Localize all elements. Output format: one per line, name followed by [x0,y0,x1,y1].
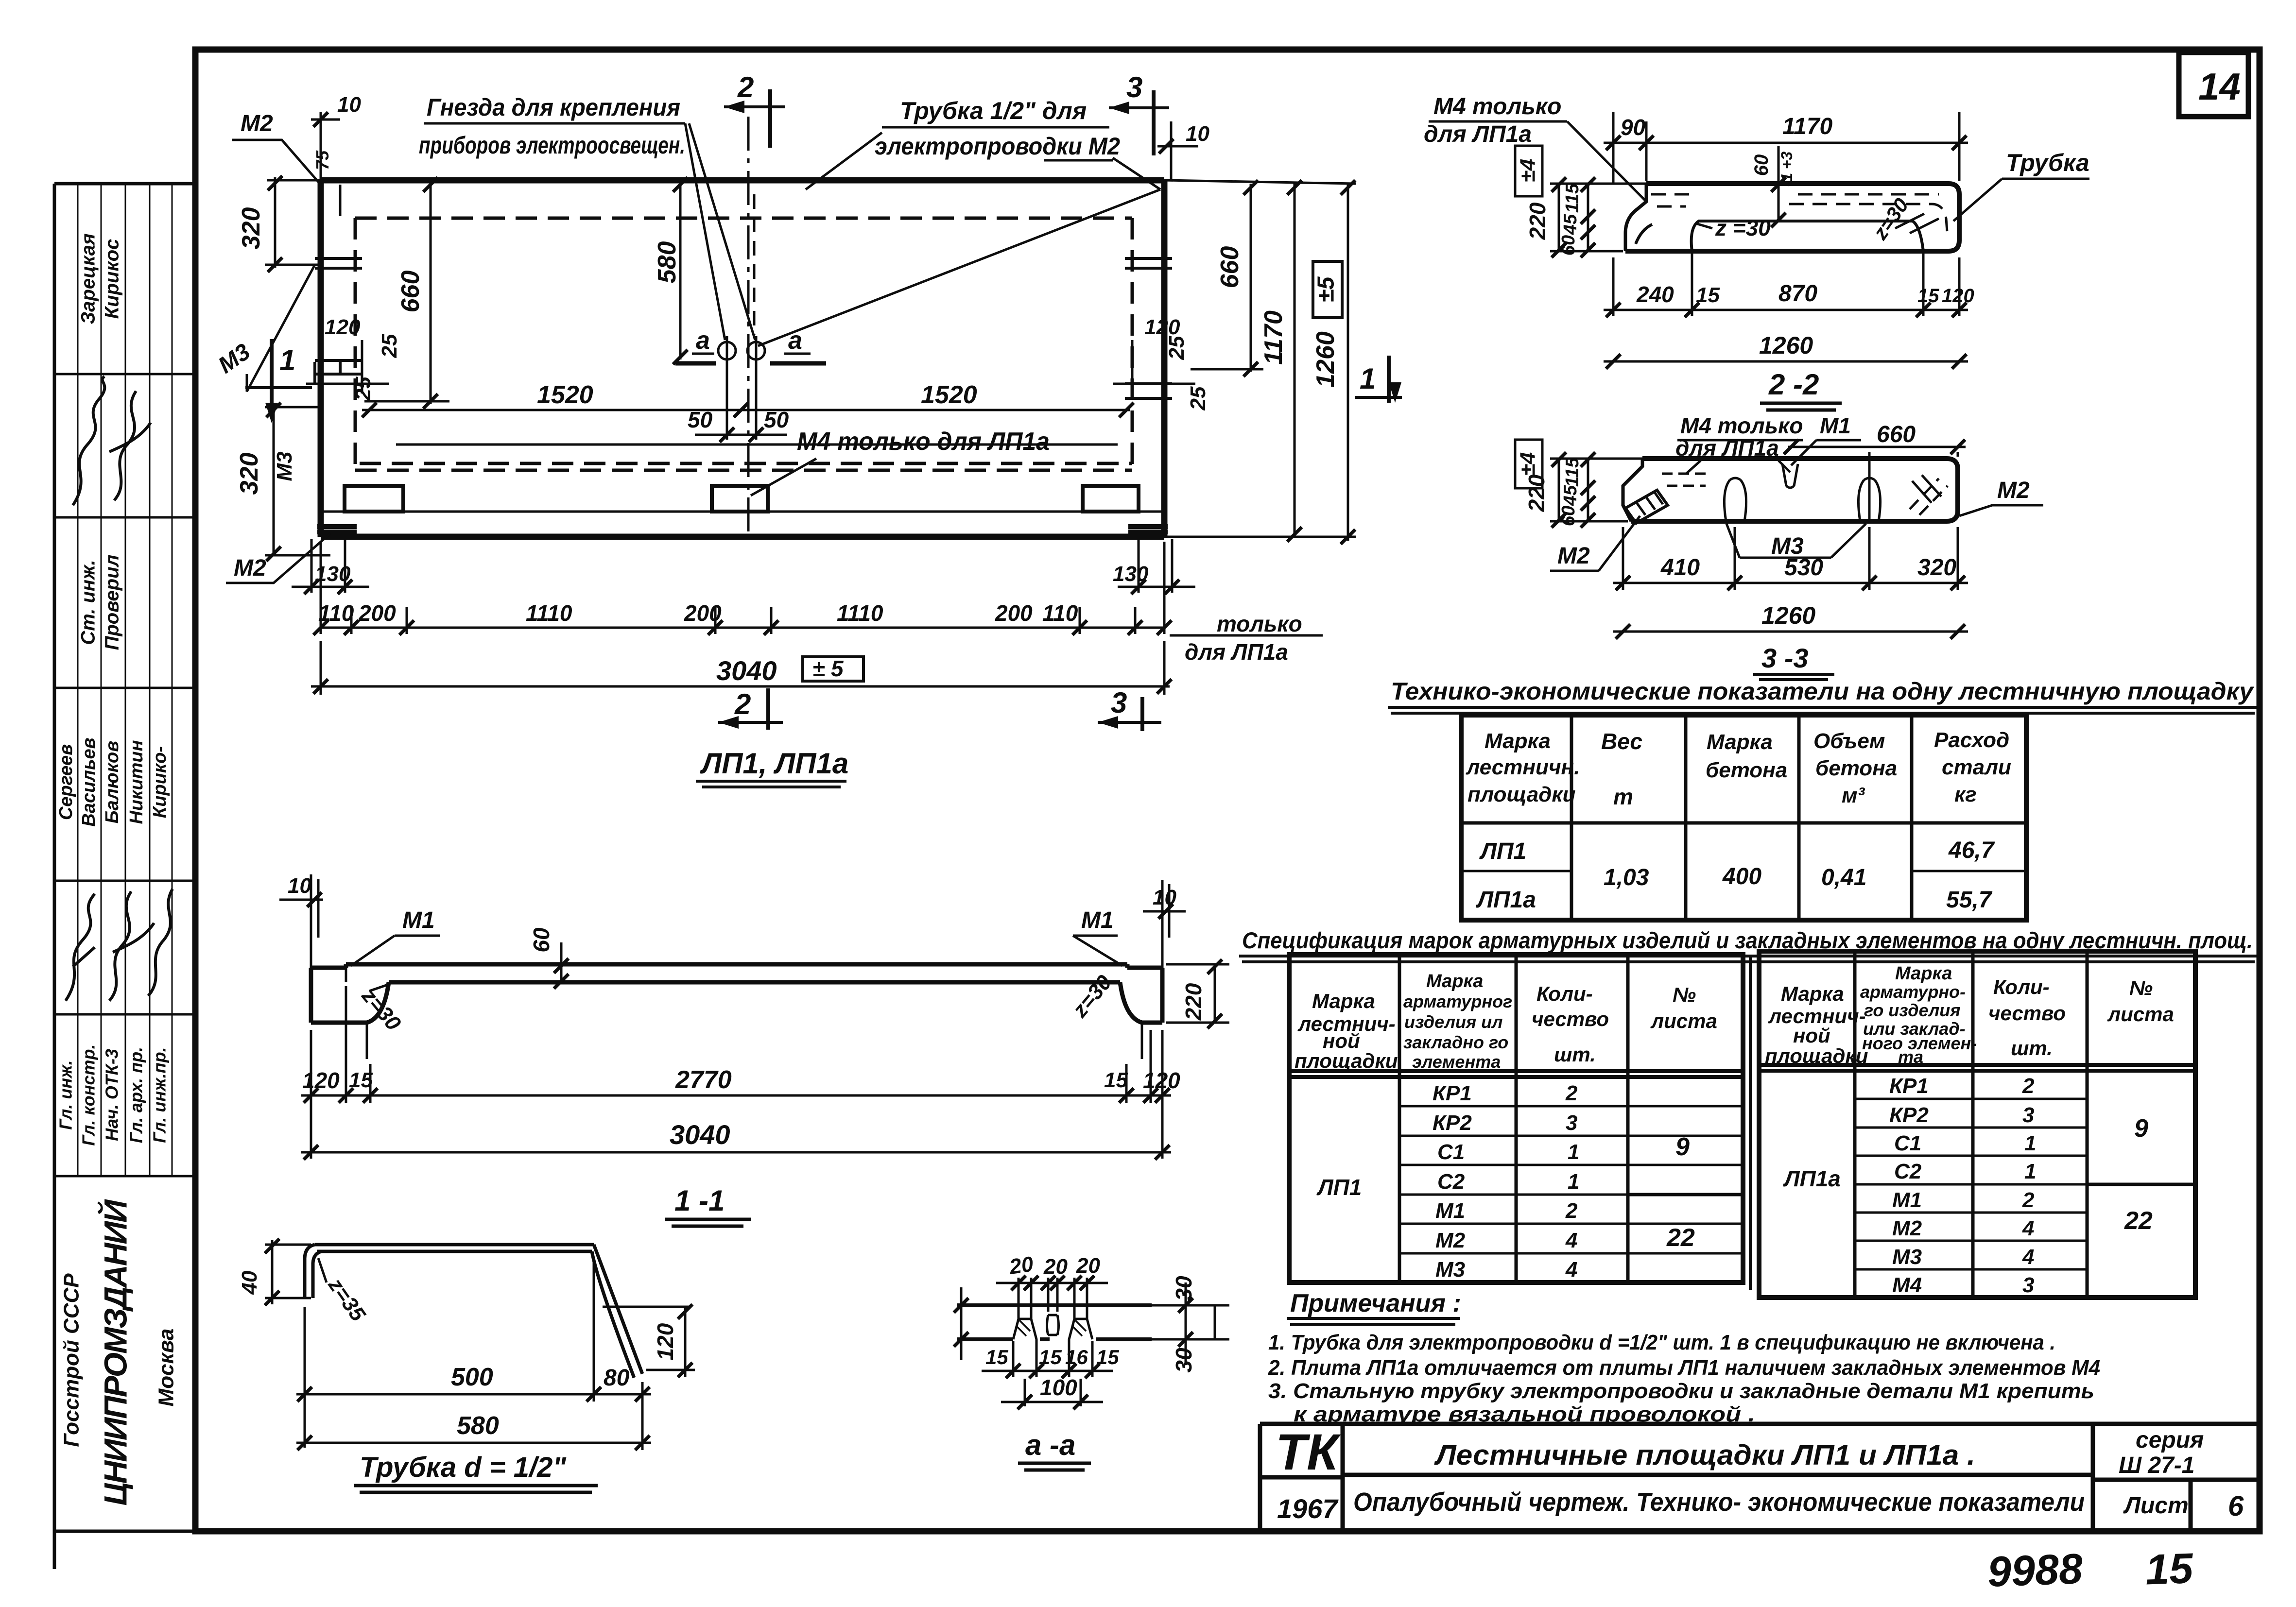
svg-text:120: 120 [325,315,361,339]
svg-text:-1: -1 [1778,173,1795,187]
table 2 right half grid [1750,951,2195,1298]
1-1 dim 10 right [1143,880,1186,968]
svg-text:2: 2 [1565,1199,1578,1223]
1-1 label M1 right [1073,907,1122,966]
svg-text:бетона: бетона [1815,756,1897,780]
svg-text:60: 60 [529,927,554,953]
svg-text:Балюков: Балюков [102,741,122,823]
svg-text:Марка: Марка [1426,971,1483,992]
svg-text:1110: 1110 [526,600,572,626]
svg-text:Лестничные площадки ЛП1 и ЛП: Лестничные площадки ЛП1 и ЛП1а . [1434,1439,1975,1471]
svg-text:шт.: шт. [1554,1043,1596,1066]
svg-text:1: 1 [1568,1140,1579,1164]
svg-text:2: 2 [734,688,751,720]
strip box3 Ст.инж / Проверил [78,517,172,688]
svg-text:№: № [2129,976,2153,999]
svg-text:500: 500 [451,1363,493,1391]
3-3 left dims ±4 220 115 45 60 [1515,440,1645,528]
plan M3 edge embeds left [315,258,362,384]
table 2 right data [1783,1074,2153,1297]
svg-text:М4 только: М4 только [1433,94,1561,120]
svg-text:3. Стальную трубку электр: 3. Стальную трубку электропроводки и зак… [1268,1379,2094,1403]
svg-text:Коли-: Коли- [1993,975,2050,998]
svg-text:120: 120 [1942,285,1974,307]
a-a left edge dim [954,1287,968,1360]
svg-text:15: 15 [985,1346,1008,1368]
svg-text:2: 2 [1565,1081,1578,1105]
svg-text:чество: чество [1532,1008,1609,1030]
1-1 label M1 left [351,907,440,966]
svg-text:9988: 9988 [1986,1544,2083,1596]
3-3 bottom dims 410 530 320 [1613,527,1968,590]
table 1 grid [1461,715,2026,920]
dim 1260 right with ±5 [321,146,1356,544]
svg-text:ЛП1: ЛП1 [1479,838,1526,864]
dim 130 left bottom [292,539,369,594]
svg-text:М2: М2 [1435,1229,1466,1252]
section 2-2 profile [1625,184,1959,316]
trubka dim 580 [296,1412,651,1450]
1-1 dim 60 [529,927,569,989]
page number box 14 [2179,52,2248,117]
svg-text:z=30: z=30 [357,984,406,1036]
svg-text:Гл. констр.: Гл. констр. [79,1044,99,1145]
svg-text:1: 1 [1568,1170,1579,1194]
1-1 dim 220 right [1166,959,1229,1028]
view label 3-3 [1753,643,1834,680]
svg-text:3: 3 [1126,71,1142,103]
svg-text:200: 200 [995,600,1033,626]
2-2 label M4 только для ЛП1а [1424,94,1646,202]
svg-text:10: 10 [337,93,361,117]
dim 50 50 at sockets [688,369,789,442]
svg-text:1170: 1170 [1782,114,1833,139]
svg-text:чество: чество [1988,1002,2066,1025]
svg-text:15: 15 [1039,1346,1062,1368]
svg-text:КР1: КР1 [1433,1081,1472,1105]
svg-text:Сергеев: Сергеев [56,744,76,820]
notes Примечания [1268,1289,2100,1426]
svg-text:КР2: КР2 [1433,1111,1472,1135]
svg-text:№: № [1673,983,1696,1006]
svg-text:арматурно-: арматурно- [1860,982,1966,1002]
table 1 data [1476,838,1995,913]
table 2 left half grid [1289,955,1743,1282]
svg-text:М1: М1 [1892,1188,1922,1212]
dim 3040 ±5 [311,641,1172,695]
svg-text:25: 25 [1165,336,1189,360]
section marker 3 top [1109,71,1169,155]
svg-text:660: 660 [1877,422,1916,447]
trubka z=35 label [318,1258,370,1326]
svg-text:3 -3: 3 -3 [1761,643,1809,673]
dim 320 bottom left [235,403,330,561]
svg-text:200: 200 [358,600,396,626]
svg-text:Проверил: Проверил [102,554,123,650]
svg-text:Госстрой СССР: Госстрой СССР [60,1273,84,1447]
1-1 z=30 labels [357,971,1117,1036]
dim 75 top left inset [312,150,340,216]
svg-text:1260: 1260 [1759,332,1813,359]
svg-text:2 -2: 2 -2 [1768,368,1819,401]
svg-text:±5: ±5 [1313,276,1339,302]
svg-text:±4: ±4 [1516,159,1540,183]
title block bottom right [1260,1424,2258,1531]
svg-text:45: 45 [1560,485,1581,506]
svg-text:т: т [1613,784,1633,809]
label M2 bottom left [226,533,330,583]
table 2 right header [1765,963,2174,1067]
svg-text:Опалубочный чертеж. Технико-: Опалубочный чертеж. Технико- экономическ… [1353,1487,2085,1517]
svg-text:ной: ной [1793,1024,1830,1047]
plan centre axis section 2 line [748,117,754,537]
svg-text:М4 только: М4 только [1680,413,1803,438]
svg-text:Трубка: Трубка [2006,149,2089,176]
trubka dim 500 80 [296,1258,651,1450]
label M2 top left [232,111,321,185]
svg-text:4: 4 [1565,1229,1577,1252]
plan M4 embed plates [345,486,1139,512]
svg-text:3: 3 [1111,686,1127,719]
svg-text:120: 120 [1143,1068,1180,1093]
svg-text:электропроводки М2: электропроводки М2 [875,133,1120,160]
svg-text:2: 2 [737,71,754,103]
svg-text:1520: 1520 [921,381,977,409]
svg-text:листа: листа [1650,1009,1717,1032]
svg-text:ЛП1, ЛП1а: ЛП1, ЛП1а [700,747,848,780]
svg-text:Расход: Расход [1934,728,2009,752]
svg-text:120: 120 [302,1068,340,1093]
svg-text:20: 20 [1076,1254,1100,1278]
svg-text:45: 45 [1560,214,1581,235]
svg-text:приборов электроосвещен.: приборов электроосвещен. [419,132,685,159]
svg-text:М2: М2 [234,555,266,581]
svg-text:80: 80 [604,1365,630,1391]
2-2 label Трубка [1953,149,2089,221]
dim 120 left and 25 25 [306,315,401,401]
svg-text:2770: 2770 [675,1066,732,1094]
svg-text:120: 120 [653,1323,678,1360]
svg-text:130: 130 [315,562,351,586]
svg-text:Технико-экономические показат: Технико-экономические показатели на одну… [1391,678,2254,705]
section 1-1 slab profile [311,964,1162,1059]
strip box7 org name [60,1199,178,1505]
svg-text:30: 30 [1171,1276,1196,1301]
svg-text:3040: 3040 [670,1119,730,1150]
svg-text:Кирикос: Кирикос [102,239,123,319]
svg-text:Коли-: Коли- [1536,982,1593,1005]
svg-text:z=35: z=35 [323,1273,370,1326]
svg-text:М1: М1 [1820,413,1851,438]
plan view slab outline ЛП1,ЛП1а [321,180,1164,537]
label Гнезда для крепления приборов электроосвещен [419,94,755,340]
svg-text:16: 16 [1065,1346,1088,1368]
svg-text:1 -1: 1 -1 [674,1184,725,1217]
svg-text:ЛП1а: ЛП1а [1783,1166,1841,1191]
trubka view label [354,1452,598,1492]
svg-text:100: 100 [1040,1375,1077,1400]
svg-text:530: 530 [1784,555,1823,581]
section marker 2 top [724,71,785,148]
svg-text:200: 200 [684,600,722,626]
3-3 label M3 [1726,524,1866,559]
left signature strip outline [54,184,195,1569]
svg-text:Кирико-: Кирико- [150,746,170,818]
svg-text:Гл. инж.: Гл. инж. [56,1060,76,1129]
svg-text:220: 220 [1525,202,1550,240]
svg-text:М1: М1 [1081,907,1114,933]
svg-text:z =30: z =30 [1715,215,1771,240]
svg-text:Ст. инж.: Ст. инж. [78,560,99,645]
note только для ЛП1а [1170,611,1323,665]
svg-text:Зарецкая: Зарецкая [78,233,99,324]
svg-text:Марка: Марка [1312,990,1375,1012]
svg-text:10: 10 [1186,122,1209,146]
svg-text:ЦНИИПРОМЗДАНИЙ: ЦНИИПРОМЗДАНИЙ [97,1199,133,1505]
svg-text:стали: стали [1942,755,2011,779]
svg-text:25: 25 [1186,386,1210,410]
svg-text:9: 9 [1675,1133,1690,1161]
trubka dim 120 [603,1304,695,1377]
svg-text:М2: М2 [1557,543,1590,569]
svg-text:лестничн.: лестничн. [1466,755,1580,779]
strip box2 signatures [73,374,172,517]
svg-text:М4: М4 [1892,1273,1922,1297]
svg-text:580: 580 [653,241,681,284]
svg-text:С2: С2 [1894,1160,1922,1183]
dim 130 right bottom [1113,539,1195,594]
svg-text:2. Плита ЛП1а отличается о: 2. Плита ЛП1а отличается от плиты ЛП1 на… [1268,1356,2100,1380]
svg-text:580: 580 [457,1412,499,1440]
3-3 label M4 только для ЛП1а [1675,413,1803,474]
svg-text:Марка: Марка [1781,982,1844,1005]
svg-text:М1: М1 [1435,1199,1465,1223]
svg-text:М2: М2 [241,111,273,137]
dim 320 top left [237,176,321,272]
plan inner dashed mesh rectangle [355,218,1132,470]
svg-text:a: a [696,326,710,355]
svg-text:1967: 1967 [1277,1493,1339,1524]
svg-text:220: 220 [1181,983,1206,1021]
svg-text:М4 только для ЛП1а: М4 только для ЛП1а [797,427,1050,456]
svg-text:+3: +3 [1778,152,1795,170]
svg-text:1: 1 [279,344,295,376]
svg-text:М3: М3 [1435,1258,1465,1282]
svg-text:1: 1 [2024,1131,2036,1155]
svg-text:площадки: площадки [1765,1044,1868,1067]
svg-text:1: 1 [1360,362,1376,395]
svg-text:660: 660 [397,271,425,313]
svg-text:4: 4 [1565,1258,1577,1282]
svg-text:только: только [1217,611,1302,636]
label Трубка 1/2 для электропроводки М2 [758,97,1160,346]
svg-text:площадки: площадки [1295,1049,1398,1072]
svg-text:Нач. ОТК-3: Нач. ОТК-3 [102,1049,122,1141]
strip box4 names [56,688,172,881]
svg-text:закладно го: закладно го [1403,1032,1508,1052]
strip box5 signatures [66,881,173,1014]
svg-text:3: 3 [2022,1273,2034,1297]
a-a right dims 30 30 [1171,1276,1215,1373]
svg-text:2: 2 [2022,1074,2035,1098]
svg-text:Вес: Вес [1601,729,1642,754]
svg-text:25: 25 [351,376,375,401]
svg-text:15: 15 [1696,283,1720,307]
2-2 dim 60 +3 middle [1751,146,1795,227]
svg-text:110: 110 [1042,600,1078,626]
2-2 dashed reinforcement and tube [1651,194,1948,238]
section marker 2 bottom [718,688,783,730]
section marker 1 right [1355,356,1402,403]
2-2 top dims 90 1170 [1604,112,1968,185]
svg-text:22: 22 [2124,1207,2153,1235]
dim 580 to sockets [653,177,688,364]
svg-text:400: 400 [1722,864,1761,889]
table 2 left data [1316,1081,1695,1282]
svg-text:М3: М3 [214,339,255,378]
trubka detail drawing [305,1245,642,1378]
svg-text:320: 320 [235,453,263,495]
svg-text:Гнезда для крепления: Гнезда для крепления [427,94,680,121]
svg-text:60: 60 [1558,506,1579,526]
a-a top dims 20 20 20 [996,1252,1108,1312]
table 2 title [1239,927,2259,962]
svg-text:0,41: 0,41 [1821,865,1866,890]
view label 1-1 [665,1184,751,1226]
svg-text:660: 660 [1216,246,1244,289]
svg-text:90: 90 [1621,115,1646,140]
dim 660 left [364,177,449,409]
svg-text:320: 320 [237,207,265,250]
strip box6 positions [56,1014,172,1176]
table 1 header texts [1466,728,2011,809]
label M4 только для ЛП1а [751,427,1050,496]
view label 2-2 [1760,368,1842,410]
svg-text:Васильев: Васильев [79,737,99,826]
svg-text:3: 3 [2022,1103,2034,1127]
svg-text:115: 115 [1562,183,1583,213]
table 2 left header [1295,971,1717,1072]
handwritten 9988 15 [1986,1544,2194,1596]
svg-text:25: 25 [378,334,401,358]
svg-text:410: 410 [1660,555,1700,581]
a-a bottom dims 15 15 16 15 [982,1339,1119,1378]
svg-text:Марка: Марка [1485,729,1551,753]
svg-text:Гл. арх. пр.: Гл. арх. пр. [126,1047,146,1143]
svg-text:20: 20 [1043,1255,1068,1279]
svg-text:для ЛП1а: для ЛП1а [1185,639,1288,665]
1-1 dim 10 left [279,874,323,968]
svg-text:к арматуре вязальной прово: к арматуре вязальной проволокой . [1294,1402,1755,1426]
a-a section strip [957,1305,1229,1339]
svg-text:15: 15 [1104,1068,1128,1092]
svg-text:Гл. инж.пр.: Гл. инж.пр. [150,1047,170,1143]
svg-text:50: 50 [688,407,713,432]
svg-text:изделия ил: изделия ил [1404,1012,1503,1032]
label M3 left upper [214,265,315,392]
a-a cut marks at circles [675,326,826,363]
dim 10 top left [311,93,361,180]
svg-text:120: 120 [1144,315,1180,339]
svg-text:15: 15 [1096,1346,1119,1368]
3-3 dim 1260 [1613,602,1968,639]
svg-text:го изделия: го изделия [1864,1000,1961,1020]
svg-text:С2: С2 [1437,1170,1465,1194]
svg-text:Ш 27-1: Ш 27-1 [2119,1453,2194,1478]
svg-text:Марка: Марка [1895,963,1952,984]
dim 10 top right [1157,121,1209,180]
svg-text:2: 2 [2022,1188,2035,1212]
a-a sockets trapezoids [1013,1305,1092,1339]
svg-text:220: 220 [1524,474,1549,512]
svg-text:Марка: Марка [1707,730,1773,754]
3-3 inner dashed anchors [1662,464,1881,521]
svg-text:1: 1 [2024,1160,2036,1183]
plan M2 corner tabs [317,527,1168,532]
trubka dim 40 [238,1239,311,1305]
svg-text:Трубка d = 1/2": Трубка d = 1/2" [360,1452,567,1483]
svg-text:элемента: элемента [1412,1052,1501,1072]
svg-text:площадки: площадки [1467,783,1576,806]
svg-text:ной: ной [1323,1029,1360,1052]
svg-text:арматурног: арматурног [1403,992,1512,1011]
dim 1170 right [1260,180,1302,542]
svg-text:1170: 1170 [1260,310,1288,365]
svg-text:М3: М3 [1892,1245,1922,1269]
dim 120 right and 25 25 [1113,315,1210,410]
plan bottom dim chain 110 200 1110 200 1110 200 110 [313,542,1172,635]
svg-text:± 5: ± 5 [812,656,844,681]
svg-text:Лист: Лист [2123,1493,2189,1519]
svg-text:z=30: z=30 [1068,971,1117,1023]
svg-text:3040: 3040 [716,655,777,686]
svg-text:Трубка 1/2" для: Трубка 1/2" для [900,97,1087,124]
svg-text:1260: 1260 [1312,331,1340,388]
svg-text:С1: С1 [1437,1140,1465,1164]
svg-text:Объем: Объем [1813,729,1885,753]
svg-text:Москва: Москва [155,1329,178,1407]
dim 1520 right [741,381,1134,417]
svg-text:КР2: КР2 [1889,1103,1929,1127]
svg-text:15: 15 [1917,285,1939,307]
3-3 label M1 and dim 660 [1784,413,1966,519]
svg-text:кг: кг [1954,783,1977,806]
dim 1520 left [362,381,748,417]
svg-text:870: 870 [1778,281,1817,307]
svg-text:50: 50 [764,407,789,432]
svg-text:±4: ±4 [1516,452,1540,476]
1-1 bottom dim chain 120 15 2770 15 120 [301,986,1180,1159]
3-3 M2 corner stubs hatched [1625,475,1948,523]
svg-text:60: 60 [1751,154,1772,176]
svg-text:та: та [1898,1047,1923,1067]
svg-text:1260: 1260 [1761,602,1815,629]
svg-text:15: 15 [349,1068,373,1092]
svg-text:130: 130 [1113,562,1149,586]
svg-text:М2: М2 [1997,478,2030,503]
svg-text:для ЛП1а: для ЛП1а [1424,121,1532,147]
svg-text:240: 240 [1636,282,1674,307]
svg-text:М1: М1 [402,907,435,933]
svg-text:1520: 1520 [537,381,593,409]
svg-text:6: 6 [2228,1490,2244,1522]
svg-text:бетона: бетона [1706,758,1787,782]
svg-text:1,03: 1,03 [1604,865,1649,890]
2-2 dim 1260 [1604,332,1968,369]
1-1 dim 3040 [301,1119,1171,1160]
view label ЛП1, ЛП1а [696,747,848,787]
svg-text:14: 14 [2198,65,2241,108]
